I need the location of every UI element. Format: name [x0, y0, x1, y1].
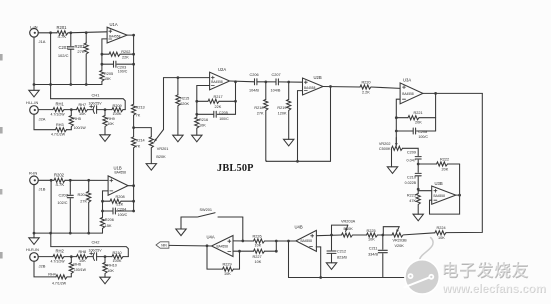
svg-text:RH6: RH6 — [73, 263, 81, 267]
ground J1B — [29, 185, 39, 245]
wire R227 right seg — [265, 250, 277, 252]
svg-text:U4A: U4A — [207, 235, 215, 240]
wire U1B -input feedback — [103, 191, 109, 201]
node R222 left — [417, 163, 420, 166]
op-amp U1B — [108, 166, 128, 196]
wire RH4 to RH6 bottom — [67, 274, 71, 277]
svg-text:10K: 10K — [255, 260, 262, 264]
svg-text:B20K: B20K — [156, 155, 166, 159]
wire U4A output to NIN — [169, 244, 212, 247]
svg-text:100K: 100K — [113, 259, 122, 263]
potentiometer VR203B — [392, 227, 407, 249]
wire R210 to bypass corner — [123, 256, 128, 258]
resistor R204 — [77, 180, 90, 233]
svg-text:100/25V: 100/25V — [89, 102, 103, 106]
svg-text:BA4558: BA4558 — [115, 170, 127, 174]
wire R226 left — [233, 240, 254, 242]
capacitor C205 — [214, 111, 229, 121]
svg-text:22K: 22K — [117, 202, 124, 206]
ground R216 — [192, 135, 202, 142]
wire J2B to RH2 — [38, 256, 53, 258]
wire R229 feedback — [207, 246, 240, 269]
wire bottom bus — [289, 277, 421, 279]
svg-text:10K: 10K — [224, 272, 231, 276]
capacitor C211 — [368, 235, 387, 278]
wire feedback row R202 — [102, 53, 134, 55]
wire C205 row — [197, 101, 236, 114]
wire CH1 to R209 — [97, 109, 112, 111]
node RH10 top — [104, 255, 107, 258]
wire U3A -input feedback — [396, 99, 400, 144]
label JBL50P — [217, 163, 254, 174]
svg-text:BA4558: BA4558 — [217, 245, 229, 249]
wire output bus upper — [133, 35, 135, 104]
svg-text:R208: R208 — [116, 195, 125, 199]
svg-text:R215: R215 — [180, 96, 189, 100]
wire J2A to RH1 — [38, 109, 53, 111]
node C212 top — [330, 234, 333, 237]
svg-text:100/C: 100/C — [418, 135, 428, 139]
svg-text:R216: R216 — [199, 118, 208, 122]
wire SW201 to ground — [180, 217, 182, 229]
svg-text:U3B: U3B — [435, 181, 443, 186]
svg-text:C204: C204 — [117, 208, 126, 212]
svg-text:C209: C209 — [407, 150, 416, 154]
wire U3B +input — [418, 190, 432, 192]
ground R223 — [413, 214, 423, 221]
node R204 top — [87, 179, 90, 182]
node C211 top — [381, 234, 384, 237]
node U4A output — [206, 244, 209, 247]
wire input-to-rail vertical b — [50, 180, 52, 246]
op-amp U3A — [400, 78, 423, 104]
wire R214 to U1B output — [133, 148, 135, 185]
ground RH9 — [100, 135, 110, 142]
wire U3B output — [456, 194, 460, 196]
svg-text:RH7: RH7 — [79, 103, 87, 107]
wire VR203B to R225 — [378, 234, 393, 236]
svg-text:U2A: U2A — [218, 67, 226, 72]
svg-text:J1B: J1B — [39, 187, 46, 192]
node R229 riser top — [238, 250, 241, 253]
wire L feedback rail — [34, 84, 102, 86]
node feedback bottom — [296, 160, 299, 163]
svg-text:100/C: 100/C — [118, 213, 128, 217]
ground RH10 — [100, 277, 110, 284]
svg-text:20K: 20K — [415, 121, 422, 125]
wire RH7 to CH1 — [88, 109, 94, 111]
svg-text:R205: R205 — [104, 72, 113, 76]
resistor RH7 — [77, 103, 88, 116]
svg-text:47K: 47K — [409, 199, 416, 203]
capacitor C203 — [114, 61, 128, 73]
svg-text:C208: C208 — [418, 130, 427, 134]
scan mark 3 — [0, 189, 2, 195]
node mixer junction — [132, 126, 135, 129]
svg-text:VR203A: VR203A — [341, 220, 356, 224]
wire U2A -input — [197, 86, 210, 102]
svg-text:C201: C201 — [58, 45, 69, 50]
resistor R209 — [112, 104, 123, 116]
svg-text:100/25V: 100/25V — [89, 249, 103, 253]
svg-text:120K: 120K — [278, 111, 287, 115]
node U3B +input — [417, 188, 420, 191]
svg-text:BA4558: BA4558 — [402, 92, 414, 96]
resistor R218 — [254, 82, 267, 161]
resistor R201 — [57, 25, 69, 39]
resistor R220 — [360, 80, 371, 94]
svg-text:R218: R218 — [254, 106, 263, 110]
svg-text:U2B: U2B — [314, 75, 322, 80]
svg-text:C205: C205 — [219, 111, 228, 115]
svg-text:RH3: RH3 — [56, 123, 64, 127]
wire C208 row — [396, 130, 435, 132]
svg-text:C207: C207 — [272, 73, 281, 77]
op-amp U1A — [107, 22, 127, 43]
svg-text:100/1W: 100/1W — [74, 126, 87, 130]
resistor RH5 — [69, 110, 86, 131]
resistor R210 — [112, 251, 123, 263]
wire feedback right vertical — [330, 87, 332, 162]
wire R213 to node — [133, 116, 135, 128]
wire R feedback rail — [34, 232, 103, 234]
svg-text:R227: R227 — [253, 255, 262, 259]
resistor R223 — [407, 194, 420, 215]
node U4B output feedback — [287, 240, 290, 243]
svg-text:104/B: 104/B — [249, 88, 259, 92]
ground R215 — [173, 135, 183, 142]
wire RH1 to RH7 — [64, 109, 77, 111]
resistor R221 — [408, 111, 423, 124]
wire R217 row — [197, 100, 236, 102]
node U1A output bus — [132, 34, 135, 37]
wire VR201 wiper to U2A +input — [164, 78, 210, 130]
ground VR202 — [387, 167, 397, 174]
svg-text:4.7/1/2W: 4.7/1/2W — [52, 282, 67, 286]
ground J1A — [29, 37, 39, 97]
node rail b C202 — [69, 232, 72, 235]
node R221 left — [395, 116, 398, 119]
svg-text:VR202: VR202 — [379, 142, 391, 146]
wire C207 to U2B +input — [278, 81, 302, 83]
svg-text:HI-R-IN: HI-R-IN — [26, 248, 39, 252]
ground R219 — [284, 139, 294, 146]
svg-text:VR203B: VR203B — [393, 238, 408, 242]
wire C203 row — [102, 54, 134, 64]
svg-text:U4B: U4B — [295, 224, 303, 229]
resistor R227 — [253, 249, 265, 264]
svg-text:R219: R219 — [277, 106, 286, 110]
resistor R203 — [74, 33, 88, 85]
svg-text:2.2K: 2.2K — [362, 91, 370, 95]
wire R222 to U3B output — [459, 164, 461, 195]
resistor R219 — [277, 82, 290, 139]
wire CH1 bypass — [51, 99, 126, 110]
svg-text:L-IN: L-IN — [30, 24, 38, 29]
wire U1A -input to feedback — [102, 39, 107, 54]
svg-text:0.022B: 0.022B — [405, 181, 417, 185]
op-amp U4A — [207, 235, 234, 257]
wire bus bottom end — [133, 186, 135, 211]
resistor RH10 — [103, 257, 117, 278]
node U2B output — [329, 85, 332, 88]
node rail R203 — [85, 83, 88, 86]
resistor RH2 — [51, 249, 66, 264]
node RH5 top — [70, 108, 73, 111]
svg-text:NIN: NIN — [161, 244, 167, 248]
node input junction b — [50, 179, 53, 182]
wire CH2 to R210 — [97, 256, 112, 258]
op-amp U2B — [303, 75, 324, 95]
svg-text:C500K: C500K — [379, 147, 391, 151]
node C205 left — [195, 113, 198, 116]
svg-text:BA4558: BA4558 — [301, 239, 313, 243]
svg-text:BA4558: BA4558 — [304, 86, 316, 90]
resistor R213 — [132, 104, 145, 117]
svg-text:R-IN: R-IN — [29, 171, 37, 176]
svg-text:R210: R210 — [113, 251, 122, 255]
node U3A output — [434, 92, 437, 95]
resistor R206 — [100, 211, 113, 233]
resistor R208 — [110, 195, 125, 206]
svg-text:4.7/1/2W: 4.7/1/2W — [51, 259, 66, 263]
connector J1A L-IN — [30, 24, 46, 44]
svg-text:823/B: 823/B — [337, 256, 347, 260]
svg-text:10K: 10K — [438, 236, 445, 240]
svg-text:R209: R209 — [113, 104, 122, 108]
resistor R229 — [223, 263, 234, 276]
svg-text:HI-L-IN: HI-L-IN — [26, 101, 38, 105]
wire R227 to U4A -input — [233, 250, 254, 252]
svg-text:R213: R213 — [136, 106, 145, 110]
capacitor C212 — [327, 235, 347, 263]
node C203 right bus — [132, 63, 135, 66]
node U1B output bus — [132, 184, 135, 187]
wire L-IN to R201 — [38, 32, 57, 34]
wire R227 riser — [275, 241, 277, 251]
resistor R205 — [100, 64, 113, 84]
svg-text:R202: R202 — [121, 50, 130, 54]
op-amp U3B — [432, 181, 456, 204]
ground C212 — [326, 263, 336, 270]
node rail C201 — [69, 83, 72, 86]
svg-text:R217: R217 — [214, 95, 223, 99]
svg-text:100/C: 100/C — [118, 70, 128, 74]
wire VR203A to U4B +input — [316, 234, 341, 237]
svg-text:R206: R206 — [105, 218, 114, 222]
svg-text:R223: R223 — [407, 194, 416, 198]
svg-text:BA4558: BA4558 — [434, 194, 446, 198]
wire U2A feedback vertical — [235, 82, 237, 115]
wire U3B feedback — [430, 195, 460, 214]
resistor R222 — [437, 157, 450, 171]
svg-text:10K: 10K — [107, 122, 114, 126]
node C204 right bus — [132, 210, 135, 213]
potentiometer VR202 — [379, 138, 403, 151]
wire R225 to VR203A — [353, 234, 367, 236]
wire RH2 to RH8 — [64, 256, 77, 258]
resistor RH6 — [69, 257, 86, 274]
node SW junction — [241, 240, 244, 243]
resistor R202b — [54, 172, 65, 187]
resistor RH3 — [51, 123, 67, 136]
svg-text:VR201: VR201 — [157, 147, 169, 151]
node C208 left — [395, 130, 398, 133]
svg-text:R226: R226 — [253, 234, 262, 238]
svg-text:CH1: CH1 — [92, 93, 101, 98]
svg-text:U1A: U1A — [110, 22, 118, 27]
svg-text:R221: R221 — [414, 111, 423, 115]
svg-text:27K: 27K — [80, 199, 87, 203]
node U3B output — [458, 194, 461, 197]
connector J2B HI-R-IN — [26, 248, 46, 268]
svg-text:SW201: SW201 — [200, 208, 212, 212]
svg-text:R204: R204 — [77, 192, 87, 197]
capacitor CH2 electrolytic — [89, 240, 103, 261]
svg-text:10K: 10K — [79, 259, 86, 263]
wire J2B sleeve to RH4 — [34, 261, 56, 277]
node rail b R204 — [87, 232, 90, 235]
node R227 right — [275, 250, 278, 253]
op-amp U2A — [210, 67, 230, 90]
svg-text:R225: R225 — [367, 229, 376, 233]
wire U2A output — [230, 80, 255, 83]
resistor R226 — [253, 234, 265, 247]
svg-text:电子发烧友: 电子发烧友 — [441, 260, 529, 280]
node RH9 top — [104, 108, 107, 111]
svg-text:22K: 22K — [122, 56, 129, 60]
input flag NIN — [156, 242, 169, 248]
watermark elecfans logo and text — [404, 238, 546, 297]
svg-text:4.7K: 4.7K — [56, 182, 65, 187]
svg-text:100/C: 100/C — [219, 117, 229, 121]
svg-text:15K: 15K — [104, 77, 111, 81]
node R208 left — [101, 200, 104, 203]
connector J2A HI-L-IN — [26, 101, 46, 121]
wire U3A output — [423, 92, 482, 94]
svg-text:RH2: RH2 — [56, 249, 65, 254]
svg-text:RH10: RH10 — [107, 264, 117, 268]
svg-text:10K: 10K — [107, 269, 114, 273]
resistor R215 — [176, 78, 190, 136]
node C201 top — [69, 31, 72, 34]
node R202 right bus — [132, 53, 135, 56]
op-amp U4B — [295, 224, 317, 251]
svg-text:R224: R224 — [437, 226, 446, 230]
node bottom bus — [319, 276, 322, 279]
node R217 left — [195, 100, 198, 103]
node R215 top — [177, 76, 180, 79]
svg-text:C212: C212 — [337, 250, 346, 254]
wire U2B output — [323, 86, 360, 89]
svg-text:BA4558: BA4558 — [211, 80, 223, 84]
wire VR203B wiper loop — [383, 227, 399, 235]
capacitor C210 — [405, 164, 422, 194]
node R218 top — [264, 81, 267, 84]
wire feedback right vertical U3A — [435, 93, 437, 131]
node R203 top — [85, 31, 88, 34]
wire R208 row — [103, 200, 134, 202]
svg-text:0.047: 0.047 — [406, 158, 416, 162]
svg-text:C206: C206 — [250, 73, 259, 77]
wire C204 row — [103, 201, 134, 211]
node C203 left — [101, 63, 104, 66]
svg-text:7K: 7K — [136, 145, 141, 149]
svg-text:RH1: RH1 — [56, 102, 65, 107]
svg-text:104/B: 104/B — [271, 88, 281, 92]
capacitor C206 — [249, 73, 259, 92]
wire SW201 to R226 node — [242, 217, 244, 241]
svg-text:V20K: V20K — [395, 244, 405, 248]
wire R226 right — [265, 240, 277, 242]
wire VR202 right to C209 — [403, 148, 419, 155]
svg-text:J2B: J2B — [39, 264, 46, 269]
wire VR203A wiper loop — [332, 225, 348, 235]
svg-text:620K: 620K — [180, 102, 189, 106]
capacitor C208 — [413, 128, 428, 139]
capacitor C207 — [271, 73, 281, 92]
wire R222 row — [418, 163, 459, 165]
node C204 left — [101, 210, 104, 213]
node C202 top — [69, 179, 72, 182]
scan mark 1 — [0, 54, 3, 61]
svg-text:7K: 7K — [136, 113, 141, 117]
node U2B +input — [287, 81, 290, 84]
ground SW201 — [176, 229, 186, 236]
svg-text:B20K: B20K — [344, 227, 354, 231]
capacitor C201 — [58, 33, 74, 85]
connector J1B R-IN — [29, 171, 46, 192]
wire R-IN to R202b — [38, 179, 54, 181]
resistor RH1 — [51, 102, 66, 117]
node R227 junction top — [275, 240, 278, 243]
wire RH3 to RH5 bottom — [67, 129, 72, 131]
wire R201 to U1A +input — [68, 32, 107, 33]
wire U1B output — [128, 185, 134, 187]
wire R220 to U3A +input — [371, 87, 400, 88]
resistor RH4 — [48, 272, 67, 285]
ground VR201 — [146, 164, 156, 171]
svg-text:RH4: RH4 — [48, 272, 56, 276]
node RH6 top — [70, 255, 73, 258]
node R208 right bus — [132, 200, 135, 203]
wire right bus — [446, 93, 482, 232]
svg-text:4.7K: 4.7K — [58, 34, 67, 39]
svg-text:CH2: CH2 — [92, 240, 101, 245]
svg-text:20K: 20K — [442, 167, 449, 171]
node R217 right — [234, 100, 237, 103]
capacitor CH1 electrolytic — [89, 93, 103, 114]
node junction on input wire — [49, 31, 52, 34]
svg-text:R214: R214 — [136, 138, 145, 142]
svg-text:100/1W: 100/1W — [74, 268, 87, 272]
switch SW201 — [181, 208, 243, 217]
svg-text:10K: 10K — [199, 124, 206, 128]
wire U4B -input riser — [316, 247, 321, 278]
scan mark 2 — [0, 127, 3, 134]
svg-text:10K: 10K — [368, 238, 375, 242]
wire VR201 to ground — [150, 148, 152, 163]
resistor R217 — [208, 95, 223, 109]
resistor R214 — [132, 128, 145, 149]
resistor R216 — [195, 114, 208, 135]
svg-text:R220: R220 — [362, 80, 371, 84]
wire mixer to VR201 — [134, 128, 152, 137]
svg-text:334/B: 334/B — [368, 252, 378, 256]
wire RH8 to CH2 — [88, 256, 94, 258]
node R202 left — [101, 53, 104, 56]
svg-text:RH9: RH9 — [107, 117, 115, 121]
